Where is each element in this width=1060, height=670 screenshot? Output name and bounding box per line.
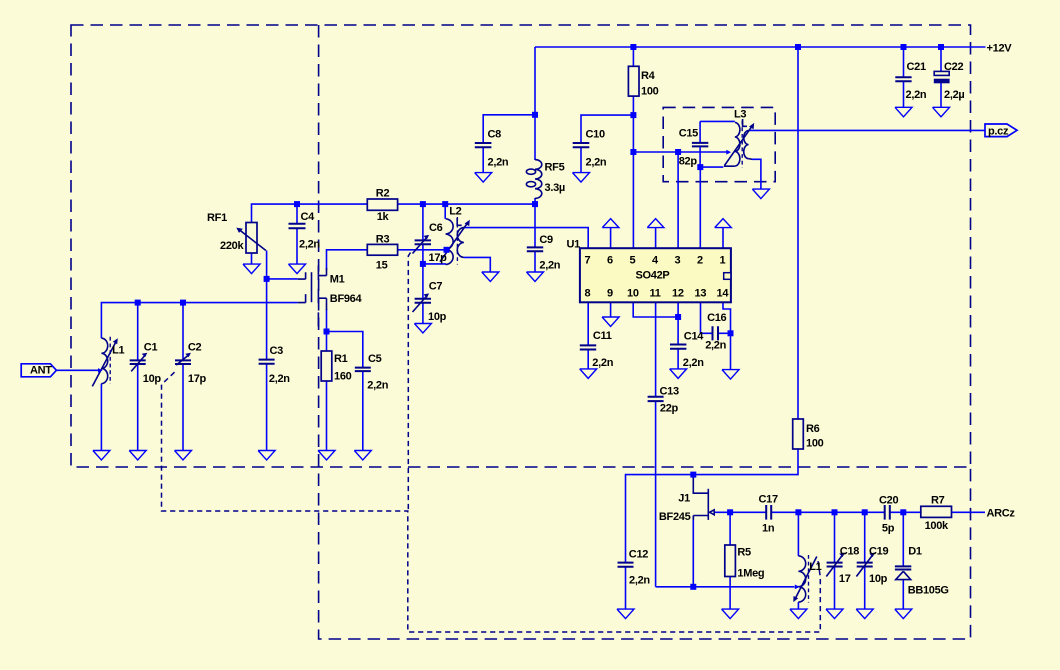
svg-text:C11: C11 (593, 330, 612, 342)
svg-text:R6: R6 (806, 423, 820, 435)
svg-text:160: 160 (334, 371, 352, 383)
svg-text:1n: 1n (762, 523, 775, 535)
ground D1 (895, 609, 912, 619)
svg-text:M1: M1 (330, 274, 345, 286)
svg-text:L3: L3 (734, 109, 746, 121)
wire C11 to ground (587, 350, 589, 369)
svg-text:p.cz: p.cz (988, 125, 1009, 137)
wire C5 to ground (362, 371, 364, 451)
svg-text:10p: 10p (143, 373, 162, 385)
svg-text:C13: C13 (660, 386, 679, 398)
resistor R2 1k (367, 199, 397, 210)
trimmer capacitor C6 17p (413, 235, 432, 254)
capacitor C9 2,2n (527, 247, 543, 251)
wire C21 to ground (903, 81, 905, 107)
wire gate rail C20 to R7 (890, 511, 920, 513)
wire U1 pin14 to ground (723, 302, 731, 369)
junction gate2 node (264, 276, 270, 282)
ground C11 (580, 369, 597, 379)
wire C14 to ground (677, 349, 679, 369)
supply arrow U1 pin4 (647, 219, 664, 228)
wire rail down to RF5/C9 (534, 47, 536, 160)
svg-text:2,2µ: 2,2µ (944, 89, 964, 101)
wire U1 pin2 up to C15 node (699, 167, 701, 248)
svg-text:RF5: RF5 (545, 162, 565, 174)
svg-text:11: 11 (650, 288, 661, 300)
wire C18 lead (834, 512, 836, 562)
svg-text:C10: C10 (586, 129, 605, 141)
ground C19 (856, 609, 873, 619)
svg-text:R4: R4 (641, 70, 656, 82)
wire C10 branch (581, 115, 633, 143)
svg-text:5: 5 (630, 255, 636, 267)
junction C15 line at pin3 (675, 149, 681, 155)
resistor R6 100 (793, 419, 804, 449)
svg-text:BB105G: BB105G (908, 585, 949, 597)
wire tank rail (101, 303, 297, 339)
wire C6 bottom node (423, 244, 446, 264)
ground C1 (129, 451, 146, 461)
wire RF1 bottom (251, 253, 253, 264)
svg-text:10p: 10p (869, 573, 888, 585)
ground C22 (933, 107, 950, 117)
transformer L3 (724, 119, 754, 168)
junction gate rail R5 (727, 509, 733, 515)
svg-text:2,2n: 2,2n (629, 575, 650, 587)
ground L1 oscillator (790, 609, 807, 619)
capacitor C4 2,2n (289, 224, 306, 229)
svg-text:2,2n: 2,2n (488, 157, 509, 169)
svg-text:C18: C18 (840, 546, 859, 558)
svg-text:3: 3 (675, 255, 681, 267)
wire U1 pin3 up (677, 152, 679, 248)
svg-text:C14: C14 (684, 331, 704, 343)
capacitor C15 82p (692, 143, 708, 147)
wire C2 lead (182, 303, 184, 361)
junction M1 source node (324, 329, 330, 335)
svg-text:2,2n: 2,2n (299, 239, 320, 251)
capacitor C14 2,2n (670, 345, 686, 349)
junction L2 tap (444, 247, 450, 253)
ground C4 (289, 264, 306, 274)
dual-gate MOSFET M1 BF964 (298, 265, 327, 326)
wire R1 to ground (326, 381, 328, 451)
junction gate rail L1 (795, 509, 801, 515)
wire C7 to ground (422, 303, 424, 324)
wire R4 bottom to U1 pin5 (632, 96, 634, 248)
wire C3 to ground (266, 364, 268, 451)
svg-text:17p: 17p (188, 373, 207, 385)
ground L2 secondary (482, 272, 499, 282)
varicap diode D1 BB105G (895, 566, 911, 579)
trimmer capacitor C18 17 (826, 553, 845, 577)
svg-text:82p: 82p (679, 156, 698, 168)
junction L2 primary top (442, 201, 448, 207)
svg-text:R2: R2 (376, 188, 390, 200)
svg-text:15: 15 (376, 260, 388, 272)
JFET J1 BF245 (693, 475, 714, 520)
svg-text:13: 13 (695, 288, 707, 300)
junction rail C22 (938, 44, 944, 50)
svg-text:1Meg: 1Meg (737, 568, 764, 580)
wire L1 osc bottom to ground (797, 602, 799, 609)
wire L1 osc top lead (797, 512, 799, 556)
tap arrow L3 core line (726, 150, 731, 155)
ground C21 (895, 107, 912, 117)
svg-text:10p: 10p (428, 311, 447, 323)
svg-text:C15: C15 (679, 128, 698, 140)
wire U1 pin11 to C13 (655, 302, 657, 396)
wire RF5 bottom to C9 (534, 198, 536, 248)
wire J1 source down (692, 516, 694, 587)
transformer L2 (440, 217, 470, 265)
junction tank C1 (135, 300, 141, 306)
wire gate2 node to M1 (267, 278, 298, 280)
svg-text:1: 1 (720, 255, 726, 267)
junction C15 bottom node (697, 164, 703, 170)
svg-text:C2: C2 (188, 342, 202, 354)
wire C21 branch (903, 47, 905, 77)
junction J1 drain node (690, 472, 696, 478)
tap arrow L1 oscillator (795, 585, 800, 590)
capacitor C13 22p (648, 397, 664, 401)
ground C12 (617, 609, 634, 619)
wire vertical rail to R6 (797, 47, 799, 419)
capacitor C12 2,2n (618, 563, 634, 567)
wire C8 to ground (482, 147, 484, 173)
svg-text:BF964: BF964 (330, 293, 363, 305)
junction rail R4 (630, 44, 636, 50)
svg-text:9: 9 (607, 288, 613, 300)
wire C2 to ground (182, 364, 184, 451)
svg-text:C8: C8 (488, 129, 502, 141)
wire C19 lead (864, 512, 866, 562)
junction tank C2 (180, 300, 186, 306)
potentiometer RF1 220k (236, 223, 266, 254)
ground C18 (826, 609, 843, 619)
svg-text:7: 7 (585, 255, 591, 267)
wire U1 pin10 to pin12 tie (633, 302, 678, 317)
junction R2 output node (420, 201, 426, 207)
junction gate rail C19 (862, 509, 868, 515)
svg-text:2,2n: 2,2n (586, 157, 607, 169)
wire +12V rail (535, 46, 986, 48)
dashed box around L3 (663, 107, 775, 181)
svg-text:C19: C19 (869, 546, 888, 558)
IC U1 SO42P body (580, 248, 731, 302)
dashed border mixer/oscillator box (319, 25, 971, 639)
svg-text:2,2n: 2,2n (269, 373, 290, 385)
wire C10 to ground (580, 147, 582, 173)
wire RF1 top to R2 (252, 204, 368, 222)
svg-text:2,2n: 2,2n (592, 357, 613, 369)
trimmer capacitor C19 10p (856, 553, 875, 577)
capacitor C20 5p horizontal (885, 505, 890, 520)
ground C7 (414, 324, 431, 334)
svg-text:2,2n: 2,2n (683, 357, 704, 369)
wire M1 drain to R3 (327, 250, 368, 270)
ground U1 pin9 (602, 317, 619, 327)
svg-text:10: 10 (627, 288, 639, 300)
wire R4 top (632, 47, 634, 66)
wire U1 pin1 arrow lead (722, 228, 724, 248)
wire C22 branch (940, 47, 942, 71)
wire R5 top lead (729, 512, 731, 545)
svg-text:2,2n: 2,2n (367, 380, 388, 392)
wire RF1 wiper to gate2 node and C3 (266, 251, 268, 360)
svg-text:L2: L2 (449, 206, 461, 218)
svg-text:C22: C22 (944, 61, 963, 73)
wire C6 lead (422, 204, 424, 240)
capacitor C15 top wire to L3 (700, 120, 735, 122)
dotted gang link C6 (408, 253, 410, 512)
svg-text:ANT: ANT (30, 365, 52, 377)
tap arrow ANT on L1 (98, 368, 103, 373)
capacitor C17 1n horizontal (766, 505, 771, 520)
junction C4 top (294, 201, 300, 207)
wire U1 pin6 arrow lead (610, 228, 612, 248)
capacitor C11 2,2n (580, 345, 596, 349)
svg-text:C7: C7 (429, 281, 443, 293)
wire R2 right to RF5 node (398, 203, 535, 205)
wire C9 bottom to ground (534, 251, 536, 272)
resistor R1 160 (321, 351, 332, 381)
supply arrow U1 pin6 (602, 219, 619, 228)
wire C15 line from R4 (633, 151, 729, 153)
wire C12 to ground (625, 567, 627, 609)
wire L1a bottom to ground (100, 384, 102, 451)
svg-text:C6: C6 (429, 222, 443, 234)
svg-text:BF245: BF245 (659, 511, 691, 523)
ground C3 (258, 451, 275, 461)
wire L3 right coil bottom to ground (752, 159, 761, 189)
variable inductor L1 antenna coil (92, 337, 118, 387)
wire U1 pin12 to C14 (677, 302, 679, 344)
svg-text:17p: 17p (429, 252, 448, 264)
svg-text:12: 12 (672, 288, 684, 300)
svg-text:L1: L1 (112, 345, 124, 357)
svg-text:ARCz: ARCz (987, 507, 1016, 519)
wire C4 to ground (296, 228, 298, 264)
ground L1 antenna (93, 451, 110, 461)
ground U1 pin14 (722, 370, 739, 380)
ground L3 (752, 189, 769, 199)
wire C1 to ground (137, 364, 139, 451)
ground C2 (175, 451, 192, 461)
wire C22 to ground (940, 83, 942, 107)
wire D1 to ground (902, 580, 904, 610)
dashed border outer RF box (71, 25, 971, 467)
svg-text:C12: C12 (629, 549, 648, 561)
wire gate rail C17 to C20 (772, 511, 885, 513)
wire L2 secondary top to U1 pin7 (464, 228, 588, 249)
wire R6 bottom (626, 449, 799, 563)
wire U1 pin8 to C11 (587, 302, 589, 345)
svg-text:SO42P: SO42P (636, 270, 670, 282)
svg-text:17: 17 (839, 573, 851, 585)
wire C8 branch (483, 115, 535, 143)
junction C16 right (728, 330, 734, 336)
junction gate rail D1 (900, 509, 906, 515)
dotted gang link C2 (162, 372, 821, 632)
svg-text:L1: L1 (809, 561, 821, 573)
wire C16 right to pin14 drop (719, 332, 731, 334)
svg-text:RF1: RF1 (207, 212, 227, 224)
trimmer capacitor C2 17p (175, 353, 191, 365)
wire R5 to ground (729, 577, 731, 610)
svg-text:6: 6 (607, 255, 613, 267)
wire J1 gate rail left (715, 511, 766, 513)
svg-text:1k: 1k (377, 211, 390, 223)
trimmer capacitor C7 10p (413, 293, 432, 312)
svg-text:C4: C4 (301, 211, 316, 223)
svg-text:U1: U1 (567, 238, 581, 250)
svg-text:C9: C9 (539, 234, 553, 246)
svg-text:14: 14 (717, 288, 730, 300)
ground C5 (354, 451, 371, 461)
svg-text:220k: 220k (220, 240, 244, 252)
junction C10 node (630, 112, 636, 118)
wire source node to C5 (327, 332, 363, 368)
junction C6 bottom node (420, 261, 426, 267)
svg-text:C17: C17 (759, 494, 778, 506)
capacitor C8 2,2n (475, 143, 492, 147)
svg-text:5p: 5p (882, 523, 895, 535)
svg-text:R5: R5 (737, 547, 751, 559)
capacitor C16 2,2n horizontal (713, 326, 719, 340)
svg-text:C21: C21 (907, 61, 926, 73)
ground R5 (722, 609, 739, 619)
svg-text:100: 100 (806, 438, 824, 450)
wire L2 secondary bottom to ground (464, 257, 490, 272)
wire D1 lead (902, 512, 904, 566)
ground C8 (475, 173, 492, 183)
svg-text:C1: C1 (144, 342, 158, 354)
supply arrow U1 pin1 (715, 219, 732, 228)
ground C9 (527, 272, 544, 282)
wire C15 node to L3 arrow (700, 166, 723, 168)
svg-text:R1: R1 (334, 353, 348, 365)
resistor R3 15 (367, 244, 397, 255)
wire L2 primary top lead (444, 204, 446, 219)
svg-text:R3: R3 (376, 233, 390, 245)
junction pins10-12 tie (675, 314, 681, 320)
svg-text:R7: R7 (931, 495, 945, 507)
junction rail C21 (901, 44, 907, 50)
svg-text:D1: D1 (908, 546, 922, 558)
wire C19 to ground (864, 567, 866, 609)
junction C15 line at R4 (630, 149, 636, 155)
wire C1 lead (137, 303, 139, 361)
net flag ANT (21, 364, 56, 377)
svg-text:C5: C5 (368, 353, 382, 365)
wire R3 right to L2 tap (398, 249, 444, 251)
svg-text:100: 100 (641, 86, 659, 98)
svg-text:C3: C3 (270, 345, 284, 357)
svg-text:2,2n: 2,2n (539, 260, 560, 272)
wire C7 lead from node (422, 264, 424, 299)
svg-text:J1: J1 (678, 493, 690, 505)
svg-text:3.3µ: 3.3µ (545, 182, 565, 194)
ground C14 (670, 369, 687, 379)
svg-text:22p: 22p (660, 403, 679, 415)
ground R1 (318, 451, 335, 461)
wire C4 lead (296, 204, 298, 223)
wire U1 pin9 to ground (610, 302, 612, 317)
svg-text:2: 2 (697, 255, 703, 267)
resistor R4 100 (628, 66, 639, 96)
capacitor C10 2,2n (573, 143, 590, 147)
wire ANT to L1 tap (57, 369, 101, 371)
wire C18 to ground (834, 567, 836, 609)
wire R1 top lead (326, 332, 328, 352)
inductor RF5 3.3u (526, 160, 541, 199)
wire bottom source rail (656, 586, 795, 588)
wire p.cz line (749, 129, 985, 131)
ground RF1 (243, 264, 260, 274)
junction gate rail C18 (832, 509, 838, 515)
wire C13 down to bottom rail (655, 401, 657, 587)
resistor R7 100k (921, 506, 952, 517)
trimmer capacitor C1 10p (130, 353, 148, 372)
resistor R5 1Meg (725, 545, 736, 577)
svg-text:C16: C16 (707, 312, 726, 324)
capacitor C3 2,2n (259, 360, 275, 364)
svg-text:+12V: +12V (987, 42, 1013, 54)
capacitor C22 2,2u electrolytic (934, 71, 950, 83)
svg-text:2,2n: 2,2n (906, 89, 927, 101)
junction RF5 bottom node (532, 201, 538, 207)
variable inductor L1 oscillator coil (793, 555, 817, 603)
wire M1 source down (326, 309, 328, 332)
svg-text:2,2n: 2,2n (705, 340, 726, 352)
net flag p.cz (985, 124, 1017, 137)
wire R7 to ARCz (952, 511, 986, 513)
capacitor C5 2,2n (355, 368, 371, 372)
wire U1 pin13 to C16 (701, 302, 712, 333)
capacitor C21 2,2n (895, 77, 911, 81)
capacitor C15 leads (699, 121, 701, 167)
svg-text:100k: 100k (925, 520, 949, 532)
junction source rail J1 (690, 584, 696, 590)
svg-text:8: 8 (585, 288, 591, 300)
junction C8 node (532, 112, 538, 118)
ground C10 (573, 173, 590, 183)
wire U1 pin4 arrow lead (655, 228, 657, 248)
junction rail R6 drop (795, 44, 801, 50)
svg-text:C20: C20 (879, 495, 898, 507)
